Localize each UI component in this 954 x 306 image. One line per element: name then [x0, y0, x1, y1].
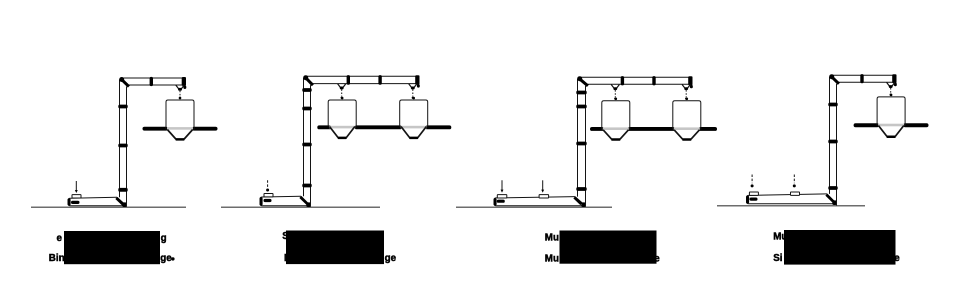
svg-text:ge: ge — [160, 253, 172, 264]
svg-text:Mu: Mu — [545, 232, 559, 243]
svg-text:ge: ge — [385, 253, 397, 264]
svg-text:Bin: Bin — [49, 253, 65, 264]
svg-text:g: g — [161, 233, 167, 244]
svg-text:Mu: Mu — [545, 253, 559, 264]
svg-text:Si: Si — [773, 253, 783, 264]
svg-text:e: e — [57, 233, 63, 244]
